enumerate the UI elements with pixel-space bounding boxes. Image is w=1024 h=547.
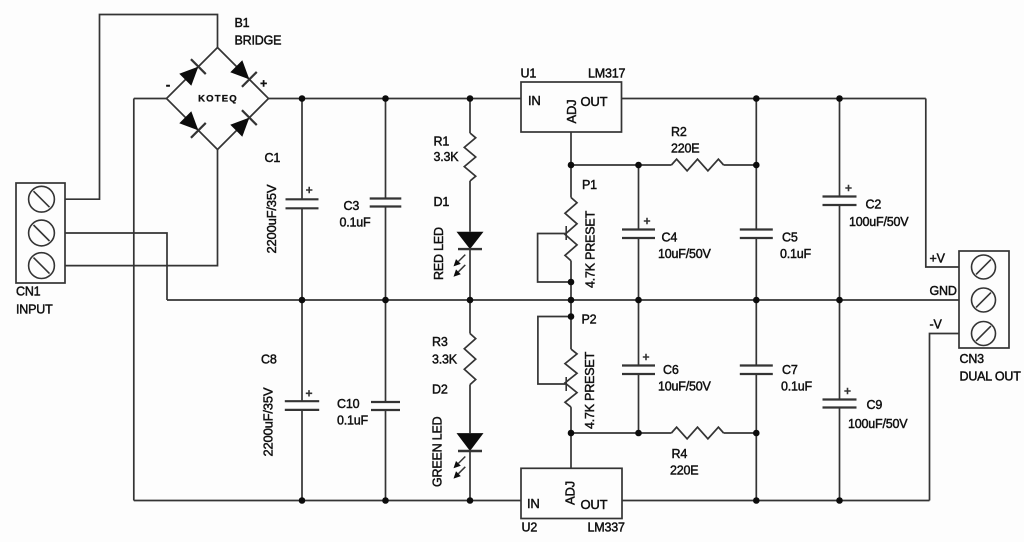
wire P2 bottom lead xyxy=(570,407,572,433)
wire C7 top lead xyxy=(755,300,757,366)
label C1 xyxy=(265,151,281,165)
wire D2 to bottom rail xyxy=(469,451,471,501)
svg-text:B1: B1 xyxy=(235,16,250,30)
capacitor C5 xyxy=(740,230,773,239)
label C10 xyxy=(337,397,360,411)
bridge diode top-right xyxy=(229,59,257,87)
wire C2 top lead xyxy=(839,99,841,197)
junction top rail x839 xyxy=(836,95,843,102)
svg-text:D2: D2 xyxy=(432,383,448,397)
junction bottom rail x756 xyxy=(753,497,760,504)
junction top rail x470 xyxy=(467,95,474,102)
junction top rail x385 xyxy=(382,95,389,102)
wire C3 top lead xyxy=(385,99,387,199)
value C3 0.1uF xyxy=(340,216,372,230)
CN1 screw terminal 3 xyxy=(29,253,55,279)
label INPUT xyxy=(16,303,53,317)
label C5 xyxy=(782,231,798,245)
svg-text:OUT: OUT xyxy=(581,497,608,512)
wire ADJ1 node to R2 xyxy=(571,164,671,166)
wire C6 bottom lead xyxy=(638,374,640,433)
resistor R4 xyxy=(671,427,723,439)
label R1 xyxy=(434,135,450,149)
value C9 100uF/50V xyxy=(848,417,908,431)
wire R3 to D2 xyxy=(469,385,471,434)
wire bridge minus stub xyxy=(134,98,167,100)
value C1 2200uF/35V xyxy=(264,184,279,253)
wire C4 top lead xyxy=(638,165,640,230)
junction ADJ2 node x571 xyxy=(568,313,575,320)
svg-text:10uF/50V: 10uF/50V xyxy=(658,380,711,394)
regulator U1 LM317 box xyxy=(521,82,622,132)
junction ADJ1 node x571 xyxy=(568,279,575,286)
label GND xyxy=(930,284,957,298)
svg-text:0.1uF: 0.1uF xyxy=(781,380,813,394)
svg-text:R4: R4 xyxy=(672,447,688,461)
label -V xyxy=(930,318,943,332)
svg-text:C9: C9 xyxy=(867,398,883,412)
svg-text:2200uF/35V: 2200uF/35V xyxy=(264,184,279,253)
capacitor C6 xyxy=(622,354,655,374)
wire P2 top lead xyxy=(570,300,572,317)
wire P1 wiper bracket xyxy=(538,234,571,283)
value R1 3.3K xyxy=(434,150,460,164)
wire P2 upper lead xyxy=(570,317,572,350)
svg-text:ADJ: ADJ xyxy=(564,100,579,124)
svg-text:0.1uF: 0.1uF xyxy=(780,247,812,261)
svg-text:0.1uF: 0.1uF xyxy=(340,216,372,230)
junction ADJ1 node x638 xyxy=(635,162,642,169)
svg-text:100uF/50V: 100uF/50V xyxy=(848,417,908,431)
svg-text:C2: C2 xyxy=(866,198,882,212)
svg-text:4.7K PRESET: 4.7K PRESET xyxy=(583,351,597,429)
label U2 xyxy=(522,521,538,535)
wire C8 top lead xyxy=(301,300,303,401)
preset P1 body xyxy=(565,198,577,261)
svg-text:KOTEQ: KOTEQ xyxy=(198,94,238,105)
svg-text:GREEN LED: GREEN LED xyxy=(431,416,445,487)
wire R4 to C7 column xyxy=(724,432,757,434)
label P2 xyxy=(582,313,597,327)
capacitor C10 xyxy=(371,402,400,410)
label R4 xyxy=(672,447,688,461)
svg-text:C10: C10 xyxy=(337,397,360,411)
label R3 xyxy=(432,335,448,349)
junction bottom rail x385 xyxy=(382,497,389,504)
svg-text:-: - xyxy=(166,77,170,92)
capacitor C4 xyxy=(622,218,655,238)
svg-text:4.7K PRESET: 4.7K PRESET xyxy=(584,210,598,288)
svg-text:C7: C7 xyxy=(782,363,798,377)
capacitor C2 xyxy=(823,185,857,205)
label C9 xyxy=(867,398,883,412)
wire R1 to D1 xyxy=(469,181,471,232)
junction ground rail x839 xyxy=(836,297,843,304)
svg-text:+V: +V xyxy=(930,252,946,266)
svg-text:220E: 220E xyxy=(670,464,698,478)
svg-text:C3: C3 xyxy=(344,199,360,213)
bridge minus sign xyxy=(166,77,170,92)
junction ADJ1 node x571 xyxy=(568,162,575,169)
junction ground rail x302 xyxy=(299,297,306,304)
P2 wiper tick xyxy=(565,377,567,391)
wire ADJ2 node to R4 xyxy=(571,432,671,434)
svg-text:OUT: OUT xyxy=(581,94,608,109)
wire negative vertical left xyxy=(133,99,135,501)
wire P2 wiper bracket xyxy=(538,317,571,385)
label U1 xyxy=(521,67,537,81)
bridge diode bottom-left xyxy=(178,110,206,138)
value C7 0.1uF xyxy=(781,380,813,394)
CN3 screw terminal GND xyxy=(972,288,996,312)
junction ground rail x756 xyxy=(753,297,760,304)
wire C5 bottom lead xyxy=(755,238,757,300)
pin label OUT U1 xyxy=(581,94,608,109)
wire C8 bottom lead xyxy=(301,410,303,501)
wire P1 to ground xyxy=(570,282,572,300)
svg-text:R1: R1 xyxy=(434,135,450,149)
connector CN1 xyxy=(16,183,65,283)
LED D2 green xyxy=(454,433,484,479)
wire R3 top lead xyxy=(469,300,471,334)
wire CN1 pin3 to bridge AC bottom xyxy=(65,150,218,266)
bridge plus sign xyxy=(260,77,267,91)
wire CN1 pin1 to bridge AC top xyxy=(65,15,218,200)
svg-text:10uF/50V: 10uF/50V xyxy=(658,247,711,261)
svg-text:LM337: LM337 xyxy=(588,521,625,535)
junction top rail x302 xyxy=(299,95,306,102)
label C7 xyxy=(782,363,798,377)
wire C3 bottom lead xyxy=(385,207,387,301)
junction ADJ1 node x756 xyxy=(753,162,760,169)
label RED LED xyxy=(432,227,446,280)
preset P2 body xyxy=(565,349,577,407)
svg-text:INPUT: INPUT xyxy=(16,303,53,317)
resistor R2 xyxy=(671,159,723,171)
svg-text:P2: P2 xyxy=(582,313,597,327)
svg-text:IN: IN xyxy=(528,93,541,108)
value C2 100uF/50V xyxy=(849,215,909,229)
wire C4 bottom lead xyxy=(638,238,640,300)
label C2 xyxy=(866,198,882,212)
junction ADJ2 node x638 xyxy=(635,430,642,437)
label GREEN LED xyxy=(431,416,445,487)
value C6 10uF/50V xyxy=(658,380,711,394)
value R2 220E xyxy=(671,142,699,156)
label B1 xyxy=(235,16,250,30)
CN1 screw terminal 2 xyxy=(29,220,55,246)
junction ground rail x470 xyxy=(467,297,474,304)
junction ADJ2 node x571 xyxy=(568,430,575,437)
CN3 screw terminal -V xyxy=(972,322,996,346)
svg-text:C8: C8 xyxy=(261,353,277,367)
wire C5 top lead xyxy=(755,99,757,230)
label LM337 xyxy=(588,521,625,535)
svg-text:220E: 220E xyxy=(671,142,699,156)
value C4 10uF/50V xyxy=(658,247,711,261)
wire P1 top lead xyxy=(570,165,572,198)
svg-text:100uF/50V: 100uF/50V xyxy=(849,215,909,229)
resistor R1 xyxy=(464,133,475,181)
capacitor C9 xyxy=(823,388,857,408)
wire -V rise to CN3 xyxy=(930,334,960,501)
svg-text:IN: IN xyxy=(527,496,540,511)
value P1 4.7K PRESET xyxy=(584,210,598,288)
LED D1 red xyxy=(454,232,484,277)
wire V+ top rail xyxy=(269,98,522,100)
connector CN3 xyxy=(959,251,1009,348)
svg-text:R2: R2 xyxy=(671,125,687,139)
CN3 screw terminal +V xyxy=(972,255,996,279)
svg-text:U1: U1 xyxy=(521,67,537,81)
value R4 220E xyxy=(670,464,698,478)
wire C9 bottom lead xyxy=(839,408,841,501)
wire top rail U1 OUT to corner xyxy=(622,98,926,100)
capacitor C7 xyxy=(740,366,773,375)
label P1 xyxy=(582,178,597,192)
value C5 0.1uF xyxy=(780,247,812,261)
svg-text:RED LED: RED LED xyxy=(432,227,446,280)
junction ADJ2 node x756 xyxy=(753,430,760,437)
junction ground rail x571 xyxy=(568,297,575,304)
svg-text:U2: U2 xyxy=(522,521,538,535)
regulator U2 LM337 box xyxy=(521,468,622,518)
capacitor C1 xyxy=(286,187,319,209)
capacitor C8 xyxy=(285,390,319,410)
value R3 3.3K xyxy=(432,353,458,367)
svg-text:3.3K: 3.3K xyxy=(434,150,460,164)
wire C1 bottom lead xyxy=(301,208,303,300)
bridge diode bottom-right xyxy=(229,110,257,138)
wire P1 bottom lead xyxy=(570,261,572,282)
junction bottom rail x839 xyxy=(836,497,843,504)
label C8 xyxy=(261,353,277,367)
capacitor C3 xyxy=(370,199,402,207)
junction bottom rail x302 xyxy=(299,497,306,504)
label D1 xyxy=(434,195,450,209)
pin label OUT U2 xyxy=(581,497,608,512)
wire C10 bottom lead xyxy=(385,410,387,501)
resistor R3 xyxy=(464,334,475,385)
svg-text:LM317: LM317 xyxy=(588,67,625,81)
wire C1 top lead xyxy=(301,99,303,200)
junction top rail x756 xyxy=(753,95,760,102)
wire bottom rail U2 OUT to corner xyxy=(622,500,930,502)
svg-text:C1: C1 xyxy=(265,151,281,165)
value C10 0.1uF xyxy=(337,414,369,428)
svg-text:DUAL OUT: DUAL OUT xyxy=(960,370,1022,384)
label C6 xyxy=(663,363,679,377)
svg-text:C5: C5 xyxy=(782,231,798,245)
junction ground rail x385 xyxy=(382,297,389,304)
wire C10 top lead xyxy=(385,300,387,402)
svg-text:CN1: CN1 xyxy=(16,285,41,299)
svg-text:+: + xyxy=(260,77,267,91)
label LM317 xyxy=(588,67,625,81)
wire D1 to ground xyxy=(469,249,471,300)
wire V- bottom rail left xyxy=(134,500,521,502)
svg-text:ADJ: ADJ xyxy=(563,481,578,505)
svg-text:0.1uF: 0.1uF xyxy=(337,414,369,428)
svg-text:CN3: CN3 xyxy=(960,352,985,366)
svg-text:C6: C6 xyxy=(663,363,679,377)
wire P2 to U2 ADJ xyxy=(570,433,572,468)
junction bottom rail x470 xyxy=(467,497,474,504)
P1 wiper tick xyxy=(565,226,567,240)
label C3 xyxy=(344,199,360,213)
wire C9 top lead xyxy=(839,300,841,400)
label R2 xyxy=(671,125,687,139)
svg-text:R3: R3 xyxy=(432,335,448,349)
junction ground rail x638 xyxy=(635,297,642,304)
bridge rectifier B1 outline xyxy=(167,48,269,150)
label D2 xyxy=(432,383,448,397)
wire +V drop to CN3 xyxy=(926,99,959,268)
pin label ADJ U1 xyxy=(564,100,579,124)
svg-text:GND: GND xyxy=(930,284,957,298)
svg-text:2200uF/35V: 2200uF/35V xyxy=(261,387,276,456)
wire U1 ADJ pin xyxy=(570,132,572,165)
label C4 xyxy=(662,231,678,245)
svg-text:P1: P1 xyxy=(582,178,597,192)
wire ground rail xyxy=(167,299,959,301)
wire C7 bottom lead xyxy=(755,374,757,501)
wire R1 top lead xyxy=(469,99,471,134)
label +V xyxy=(930,252,946,266)
svg-text:BRIDGE: BRIDGE xyxy=(235,34,282,48)
svg-text:D1: D1 xyxy=(434,195,450,209)
wire C2 bottom lead xyxy=(839,205,841,300)
value P2 4.7K PRESET xyxy=(583,351,597,429)
label CN1 xyxy=(16,285,41,299)
label DUAL OUT xyxy=(960,370,1022,384)
CN1 screw terminal 1 xyxy=(29,186,55,212)
bridge diode top-left xyxy=(178,59,206,87)
svg-text:-V: -V xyxy=(930,318,943,332)
svg-text:C4: C4 xyxy=(662,231,678,245)
label CN3 xyxy=(960,352,985,366)
wire CN1 pin2 to ground rail xyxy=(65,233,167,300)
wire C6 top lead xyxy=(638,300,640,366)
wire R2 to C5 column xyxy=(724,164,757,166)
value C8 2200uF/35V xyxy=(261,387,276,456)
pin label ADJ U2 xyxy=(563,481,578,505)
label BRIDGE xyxy=(235,34,282,48)
svg-text:3.3K: 3.3K xyxy=(432,353,458,367)
pin label IN U1 xyxy=(528,93,541,108)
bridge logo KOTEQ xyxy=(198,94,238,105)
pin label IN U2 xyxy=(527,496,540,511)
